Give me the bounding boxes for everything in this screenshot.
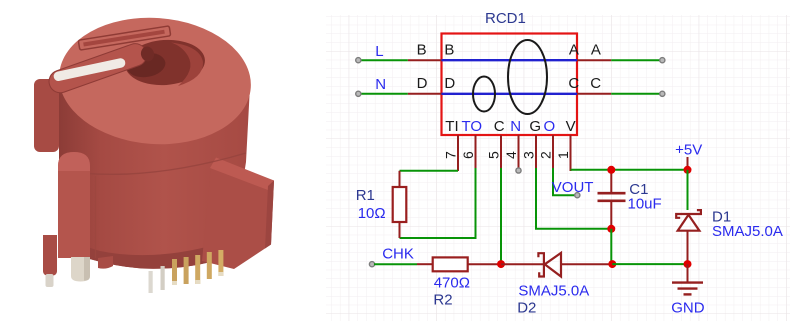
wire pin6 down to R1 bottom — [400, 168, 476, 238]
svg-text:R2: R2 — [433, 292, 452, 309]
svg-text:L: L — [375, 43, 383, 60]
svg-text:C: C — [568, 75, 579, 92]
wire C — [611, 93, 660, 95]
svg-text:7: 7 — [443, 151, 459, 159]
terminal C — [660, 91, 665, 96]
svg-text:+5V: +5V — [675, 142, 702, 159]
svg-text:1: 1 — [555, 151, 571, 159]
svg-text:10Ω: 10Ω — [358, 205, 386, 222]
resistor R1 — [393, 171, 407, 238]
gold pin 1 — [172, 259, 177, 285]
small toroid ellipse — [473, 77, 495, 112]
clip arm — [46, 41, 156, 96]
svg-text:5: 5 — [486, 151, 502, 159]
svg-text:SMAJ5.0A: SMAJ5.0A — [518, 282, 589, 299]
svg-text:N: N — [510, 118, 521, 135]
pin 2 stub — [552, 135, 554, 169]
pin 5 stub — [500, 135, 502, 169]
svg-text:C: C — [494, 118, 505, 135]
terminal CHK — [369, 262, 374, 267]
cream foot — [71, 257, 90, 282]
junction CHK node — [497, 260, 505, 268]
svg-text:O: O — [544, 118, 556, 135]
cylinder top face — [55, 11, 255, 150]
white pin 1 — [149, 271, 153, 293]
wire pin2 to VOUT — [553, 168, 575, 195]
hole inner right wall — [171, 43, 203, 87]
clip tip curl — [139, 45, 155, 63]
terminal L — [356, 58, 361, 63]
svg-text:N: N — [375, 76, 386, 93]
pin lead A — [577, 59, 611, 61]
gold pin 3 — [195, 255, 200, 284]
junction D2 anode — [608, 260, 616, 268]
wire N — [360, 93, 408, 95]
gold pin 5 — [218, 250, 223, 276]
svg-text:10uF: 10uF — [628, 196, 662, 213]
svg-text:D2: D2 — [517, 300, 536, 317]
pin 4 stub — [518, 135, 520, 168]
primary line N (blue) — [442, 93, 578, 95]
left foot bar — [58, 152, 90, 258]
svg-text:A: A — [591, 41, 601, 58]
pin 4 open end — [516, 168, 521, 173]
transformer RCD1 box — [442, 34, 578, 136]
middle small tab — [98, 256, 113, 269]
wire pin1 to +5V rail — [571, 169, 688, 171]
junction GND node — [684, 260, 692, 268]
base wedge right edge shade — [265, 181, 274, 249]
junction C1 top — [607, 166, 615, 174]
svg-text:3: 3 — [521, 151, 537, 159]
wire pin5 down to junction — [500, 168, 502, 264]
pin lead C — [577, 93, 611, 95]
base wedge front face — [202, 166, 274, 269]
terminal VOUT — [575, 193, 580, 198]
svg-text:B: B — [444, 41, 454, 58]
svg-text:TO: TO — [462, 118, 483, 135]
svg-text:A: A — [569, 41, 579, 58]
junction C1 bottom — [607, 225, 615, 233]
svg-text:C: C — [590, 75, 601, 92]
svg-text:SMAJ5.0A: SMAJ5.0A — [712, 223, 783, 240]
svg-text:RCD1: RCD1 — [485, 10, 526, 27]
schematic grid — [326, 15, 790, 321]
svg-text:D: D — [417, 75, 428, 92]
hole deep shadow — [125, 50, 167, 79]
gold pin 4 — [207, 252, 212, 279]
diode D2 — [501, 253, 612, 277]
ground symbol — [672, 264, 703, 294]
svg-text:V: V — [566, 118, 576, 135]
svg-text:470Ω: 470Ω — [434, 275, 470, 292]
body front seam — [95, 176, 97, 258]
component photo — [34, 11, 274, 293]
cylinder side — [59, 86, 250, 269]
svg-text:R1: R1 — [356, 187, 375, 204]
pin lead B — [408, 59, 442, 61]
pin 7 stub — [457, 135, 459, 171]
cylinder seam line — [59, 153, 246, 174]
capacitor C1 — [598, 170, 626, 229]
clip slot — [53, 57, 126, 81]
wire pin7 to R1 top — [400, 170, 459, 172]
svg-text:6: 6 — [460, 151, 476, 159]
clip left base — [34, 79, 59, 152]
junction +5V — [684, 166, 692, 174]
pin 1 stub — [570, 135, 572, 171]
supply +5V stub — [687, 157, 689, 167]
terminal N — [356, 91, 361, 96]
base wedge top band — [210, 158, 274, 191]
svg-text:VOUT: VOUT — [552, 179, 594, 196]
svg-text:CHK: CHK — [382, 246, 414, 263]
small tab bottom-left — [43, 235, 57, 276]
primary line L (blue) — [442, 59, 578, 61]
resistor R2 — [417, 257, 501, 271]
wire A — [611, 59, 660, 61]
white pin 2 — [161, 266, 165, 290]
svg-text:GND: GND — [671, 300, 705, 317]
svg-text:2: 2 — [538, 151, 554, 159]
pin 3 stub — [535, 135, 537, 169]
pin 6 stub — [475, 135, 477, 169]
wire C1 bottom down to D2 row — [610, 229, 612, 264]
svg-text:TI: TI — [445, 118, 458, 135]
wire D2 to GND node — [612, 263, 687, 265]
wire CHK — [374, 263, 417, 265]
terminal A — [660, 58, 665, 63]
wire pin3 down and right to C1 bottom — [536, 168, 611, 229]
svg-text:B: B — [417, 41, 427, 58]
gold pin 2 — [184, 257, 189, 284]
big toroid ellipse — [508, 40, 547, 114]
pin lead D — [408, 93, 442, 95]
lower body shade — [59, 225, 231, 269]
svg-text:D: D — [444, 75, 455, 92]
svg-text:G: G — [529, 118, 541, 135]
diode D1 — [676, 170, 701, 264]
emboss label plate — [78, 26, 170, 50]
svg-text:4: 4 — [503, 151, 519, 159]
white pin under tab — [46, 274, 54, 287]
wire L — [360, 59, 408, 61]
toroid hole — [124, 37, 207, 87]
